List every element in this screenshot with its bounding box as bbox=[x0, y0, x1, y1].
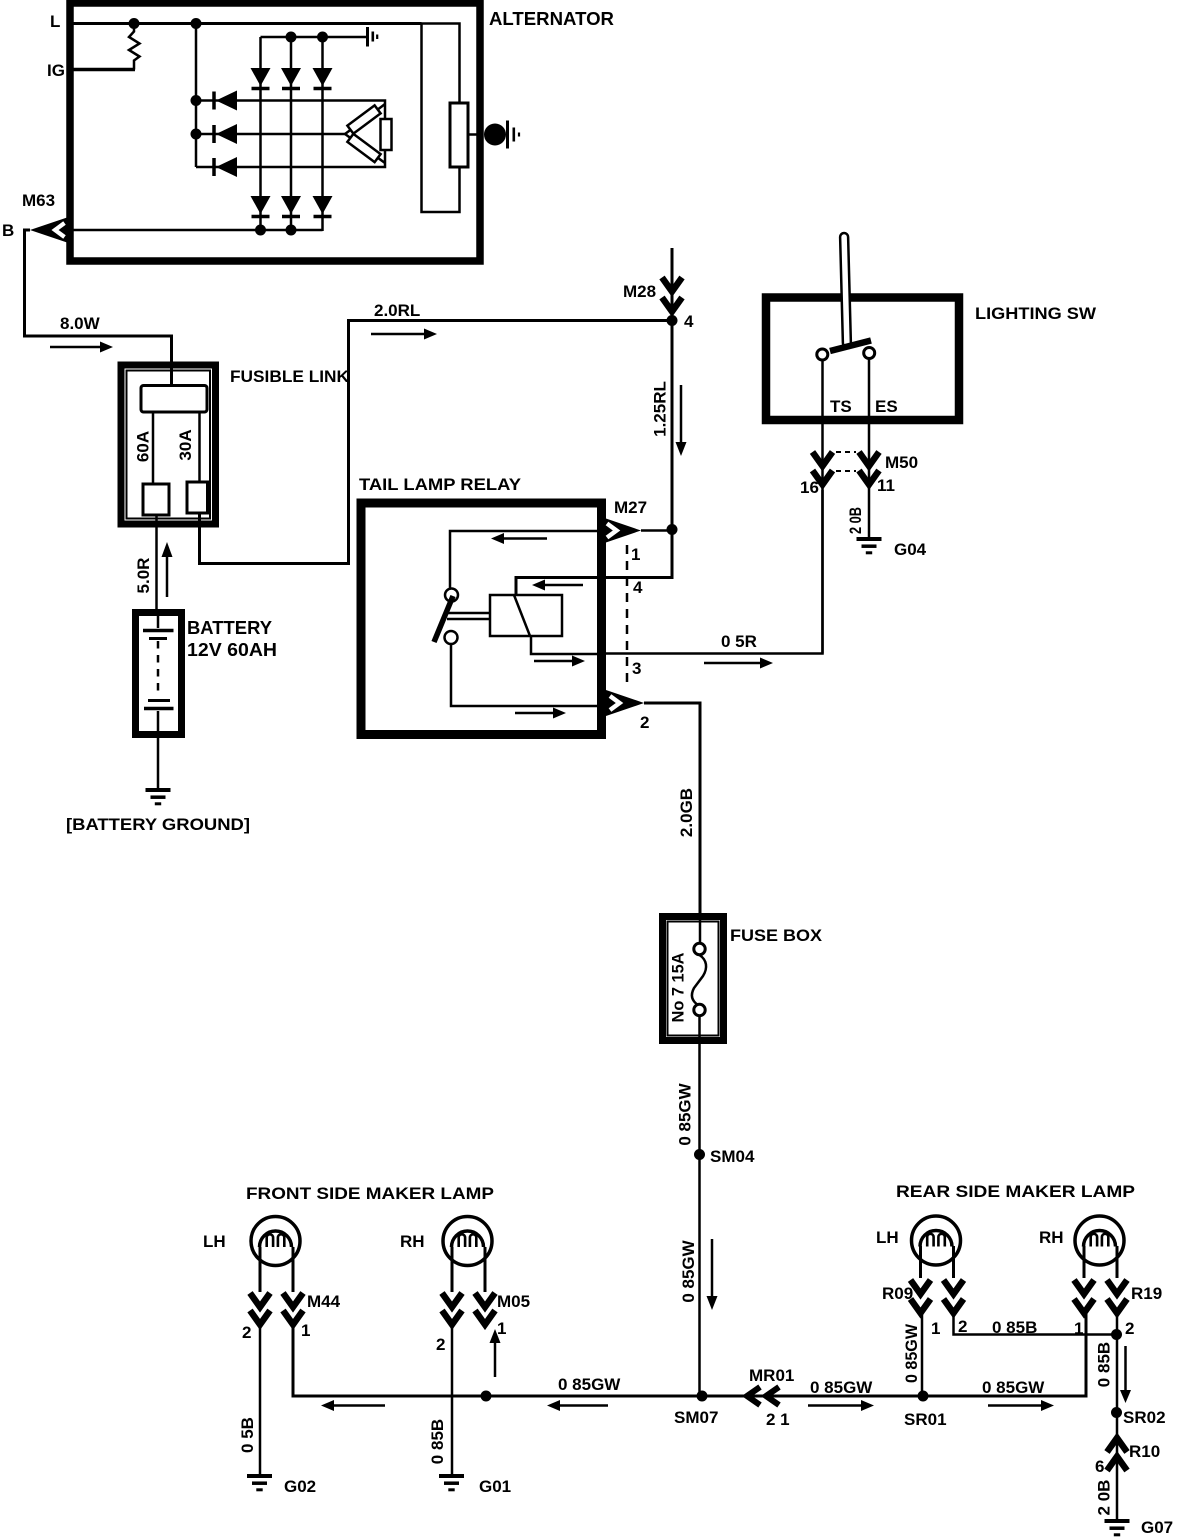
svg-text:0 85GW: 0 85GW bbox=[558, 1375, 621, 1394]
svg-text:30A: 30A bbox=[176, 429, 195, 460]
svg-text:3: 3 bbox=[632, 659, 641, 678]
svg-text:2 0B: 2 0B bbox=[1095, 1480, 1114, 1516]
svg-text:0 85GW: 0 85GW bbox=[902, 1323, 921, 1383]
svg-text:4: 4 bbox=[633, 578, 643, 597]
svg-text:0 85B: 0 85B bbox=[428, 1419, 447, 1464]
svg-text:1: 1 bbox=[497, 1319, 506, 1338]
svg-text:0 85GW: 0 85GW bbox=[679, 1239, 698, 1302]
svg-text:SM04: SM04 bbox=[710, 1147, 755, 1166]
svg-text:R09: R09 bbox=[882, 1284, 913, 1303]
svg-text:M05: M05 bbox=[497, 1292, 530, 1311]
svg-text:16: 16 bbox=[800, 478, 819, 497]
svg-text:2.0GB: 2.0GB bbox=[677, 788, 696, 837]
svg-text:2: 2 bbox=[436, 1335, 445, 1354]
svg-text:LH: LH bbox=[876, 1228, 899, 1247]
svg-text:2: 2 bbox=[640, 713, 649, 732]
svg-text:2: 2 bbox=[958, 1317, 967, 1336]
svg-text:TAIL LAMP RELAY: TAIL LAMP RELAY bbox=[359, 475, 522, 494]
svg-text:60A: 60A bbox=[134, 431, 153, 462]
svg-text:4: 4 bbox=[684, 312, 694, 331]
svg-text:6: 6 bbox=[1095, 1457, 1104, 1476]
svg-text:2: 2 bbox=[242, 1323, 251, 1342]
svg-text:L: L bbox=[50, 12, 60, 31]
svg-text:MR01: MR01 bbox=[749, 1366, 794, 1385]
svg-text:M63: M63 bbox=[22, 191, 55, 210]
svg-text:G07: G07 bbox=[1141, 1518, 1173, 1537]
svg-text:1: 1 bbox=[301, 1321, 310, 1340]
svg-text:11: 11 bbox=[877, 476, 895, 495]
svg-text:2: 2 bbox=[1125, 1319, 1134, 1338]
svg-text:SM07: SM07 bbox=[674, 1408, 718, 1427]
svg-text:5.0R: 5.0R bbox=[134, 558, 153, 594]
svg-text:0 85GW: 0 85GW bbox=[810, 1378, 873, 1397]
svg-text:12V 60AH: 12V 60AH bbox=[187, 640, 277, 660]
svg-text:R10: R10 bbox=[1129, 1442, 1160, 1461]
svg-text:No 7 15A: No 7 15A bbox=[669, 953, 688, 1023]
svg-text:R19: R19 bbox=[1131, 1284, 1162, 1303]
svg-text:FUSIBLE LINK: FUSIBLE LINK bbox=[230, 367, 350, 386]
svg-text:SR02: SR02 bbox=[1123, 1408, 1166, 1427]
svg-text:SR01: SR01 bbox=[904, 1410, 947, 1429]
svg-text:[BATTERY GROUND]: [BATTERY GROUND] bbox=[66, 815, 250, 834]
svg-text:2 0B: 2 0B bbox=[846, 507, 865, 534]
svg-text:2.0RL: 2.0RL bbox=[374, 301, 420, 320]
svg-text:M50: M50 bbox=[885, 453, 918, 472]
svg-text:G02: G02 bbox=[284, 1477, 316, 1496]
svg-text:G04: G04 bbox=[894, 540, 927, 559]
svg-text:0 5R: 0 5R bbox=[721, 632, 757, 651]
svg-text:0 85GW: 0 85GW bbox=[982, 1378, 1045, 1397]
svg-text:1: 1 bbox=[631, 545, 640, 564]
svg-text:LIGHTING SW: LIGHTING SW bbox=[975, 304, 1097, 323]
svg-text:FUSE BOX: FUSE BOX bbox=[730, 926, 823, 945]
svg-text:REAR SIDE MAKER LAMP: REAR SIDE MAKER LAMP bbox=[896, 1182, 1135, 1201]
svg-text:FRONT SIDE MAKER LAMP: FRONT SIDE MAKER LAMP bbox=[246, 1184, 494, 1203]
svg-text:2 1: 2 1 bbox=[766, 1410, 790, 1429]
svg-text:IG: IG bbox=[47, 61, 65, 80]
svg-text:B: B bbox=[2, 221, 14, 240]
svg-text:TS: TS bbox=[830, 397, 852, 416]
svg-text:RH: RH bbox=[400, 1232, 425, 1251]
svg-text:M27: M27 bbox=[614, 498, 647, 517]
svg-text:1.25RL: 1.25RL bbox=[651, 381, 670, 437]
svg-text:M28: M28 bbox=[623, 282, 656, 301]
svg-text:LH: LH bbox=[203, 1232, 226, 1251]
svg-text:BATTERY: BATTERY bbox=[187, 618, 272, 638]
svg-text:8.0W: 8.0W bbox=[60, 314, 101, 333]
svg-text:0 85B: 0 85B bbox=[992, 1318, 1037, 1337]
svg-text:0 85GW: 0 85GW bbox=[676, 1082, 695, 1145]
svg-text:M44: M44 bbox=[307, 1292, 341, 1311]
svg-text:ES: ES bbox=[875, 397, 898, 416]
svg-text:1: 1 bbox=[931, 1319, 940, 1338]
svg-text:0 85B: 0 85B bbox=[1095, 1342, 1114, 1387]
svg-text:0 5B: 0 5B bbox=[238, 1417, 257, 1453]
svg-text:RH: RH bbox=[1039, 1228, 1064, 1247]
svg-text:G01: G01 bbox=[479, 1477, 511, 1496]
svg-text:ALTERNATOR: ALTERNATOR bbox=[489, 9, 614, 29]
